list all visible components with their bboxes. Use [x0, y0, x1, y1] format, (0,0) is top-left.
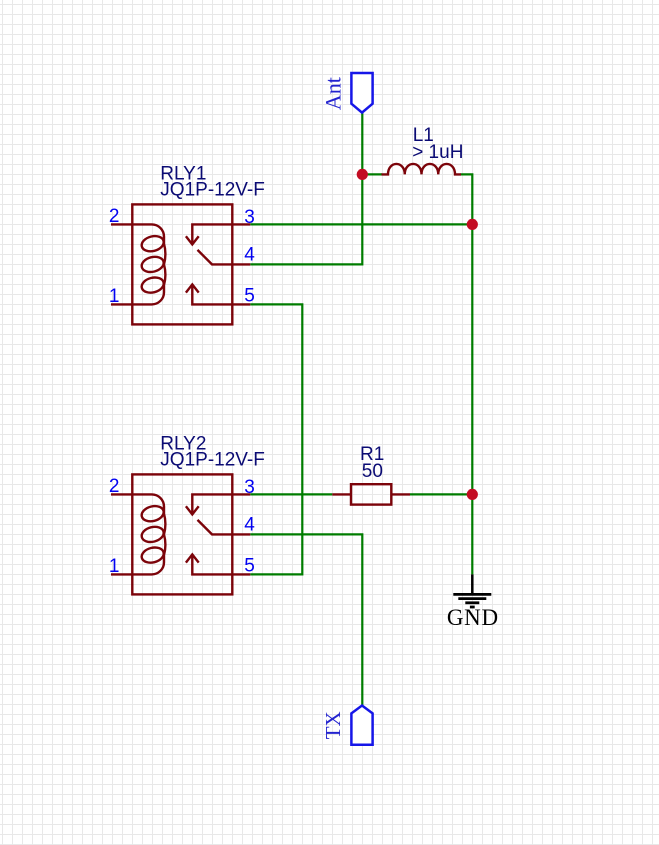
RLY1 pin 4 stub — [232, 263, 250, 265]
svg-text:JQ1P-12V-F: JQ1P-12V-F — [160, 180, 265, 201]
wire RLY1 pin 5 to RLY2 pin 5 — [250, 304, 302, 574]
junction node at Ant/L1 — [357, 169, 368, 180]
svg-text:TX: TX — [321, 711, 345, 739]
svg-text:3: 3 — [244, 477, 255, 498]
RLY1 pin 3 stub — [232, 223, 250, 225]
RLY2 pin 4 stub — [232, 533, 250, 535]
junction node at L1/pin3 — [467, 219, 478, 230]
svg-text:3: 3 — [244, 207, 255, 228]
svg-text:1: 1 — [109, 556, 120, 577]
wire RLY2 pin 4 to TX — [250, 534, 362, 705]
relay RLY2 — [111, 474, 250, 594]
svg-text:2: 2 — [109, 206, 120, 227]
relay RLY1 — [111, 204, 250, 324]
wire R1 to GND vertical — [410, 493, 472, 495]
wire Ant to RLY1 pin 4 — [250, 113, 362, 265]
resistor R1 — [332, 484, 410, 504]
svg-text:5: 5 — [244, 285, 255, 306]
RLY2 switch pin5 arm with up arrow — [192, 554, 232, 574]
svg-text:JQ1P-12V-F: JQ1P-12V-F — [160, 450, 265, 471]
relay RLY2 body — [132, 474, 232, 594]
relay RLY1 body — [132, 204, 232, 324]
wire RLY2 pin 3 to R1 — [250, 493, 332, 495]
RLY1 switch pin5 arm with up arrow — [192, 284, 232, 304]
svg-text:> 1uH: > 1uH — [412, 142, 463, 163]
RLY2 switch pin3 arm with down arrow — [192, 494, 232, 514]
RLY2 coil with pin 2 and pin 1 stubs — [111, 494, 165, 574]
svg-text:4: 4 — [244, 245, 255, 266]
RLY2 pin 5 stub — [232, 573, 250, 575]
RLY1 switch blade — [198, 250, 233, 265]
wire junction to L1 left — [362, 173, 382, 175]
svg-text:5: 5 — [244, 555, 255, 576]
svg-text:Ant: Ant — [321, 77, 346, 110]
ground GND — [453, 574, 491, 607]
RLY2 switch blade — [198, 520, 233, 535]
svg-text:1: 1 — [109, 286, 120, 307]
wire RLY1 pin 3 to vertical — [250, 223, 472, 225]
svg-text:GND: GND — [447, 605, 499, 630]
junction node at R1/GND wire — [467, 489, 478, 500]
svg-text:50: 50 — [362, 461, 383, 482]
RLY1 switch pin3 arm with down arrow — [192, 224, 232, 244]
svg-text:2: 2 — [109, 476, 120, 497]
inductor L1 — [382, 164, 462, 174]
RLY2 pin 3 stub — [232, 493, 250, 495]
connector TX — [351, 706, 372, 745]
wire L1 right down to GND — [461, 174, 473, 574]
svg-text:4: 4 — [244, 515, 255, 536]
RLY1 coil with pin 2 and pin 1 stubs — [111, 224, 165, 304]
connector Ant — [351, 73, 372, 113]
RLY1 pin 5 stub — [232, 303, 250, 305]
